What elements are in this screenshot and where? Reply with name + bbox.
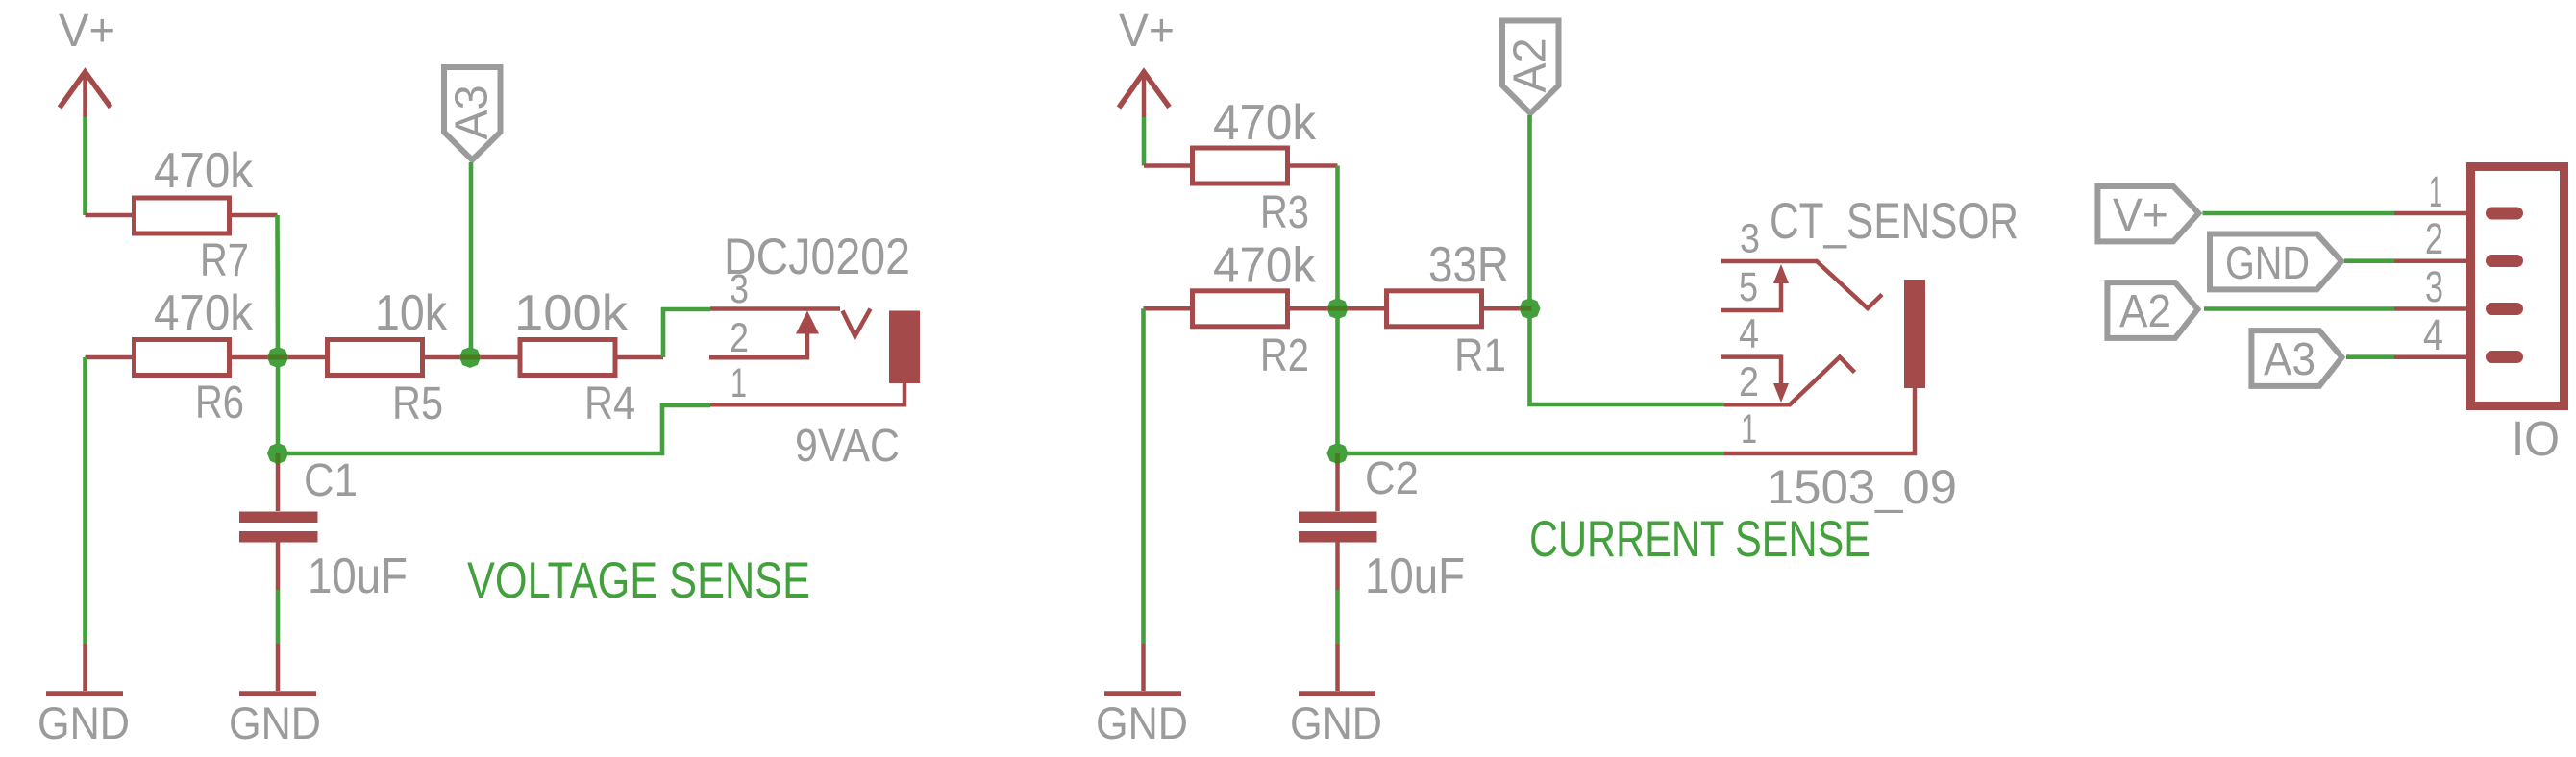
svg-text:1503_09: 1503_09 <box>1767 460 1957 514</box>
flag A2 (IO pin 3) <box>2107 282 2197 338</box>
wire V+ to R3 <box>1142 117 1147 166</box>
svg-text:R2: R2 <box>1260 330 1309 381</box>
ground symbol GND (under R2) <box>1096 644 1188 748</box>
flag A2 (top, pointing down) <box>1502 21 1559 114</box>
svg-text:2: 2 <box>1739 359 1759 405</box>
IO pin 2 contact <box>2486 255 2523 267</box>
svg-text:2: 2 <box>730 315 749 361</box>
wire node F to CT_SENSOR pin 1 <box>1338 452 1725 456</box>
wire GND flag to IO pin 2 <box>2344 258 2394 263</box>
svg-text:10k: 10k <box>375 285 448 341</box>
svg-text:4: 4 <box>2423 310 2443 359</box>
svg-text:R3: R3 <box>1260 187 1309 238</box>
svg-text:A2: A2 <box>1505 38 1556 93</box>
value label 470k (R2) <box>1213 238 1317 294</box>
pin number 3 (CT_SENSOR) <box>1740 216 1760 262</box>
wire node C to jack pin 1 <box>278 405 710 453</box>
name label R6 <box>195 378 244 428</box>
svg-text:GND: GND <box>1290 697 1382 748</box>
svg-text:9VAC: 9VAC <box>795 421 900 472</box>
net label 9VAC <box>795 421 900 472</box>
svg-text:A2: A2 <box>2119 286 2171 337</box>
resistor R1 <box>1338 291 1530 327</box>
node C junction (C1 tap) <box>267 443 288 464</box>
svg-text:5: 5 <box>1739 264 1758 310</box>
name label R1 <box>1454 330 1506 381</box>
IO pin 1 line <box>2394 211 2470 216</box>
part label DCJ0202 <box>724 229 910 285</box>
CT_SENSOR pin 1 <box>1724 388 1915 453</box>
svg-text:C1: C1 <box>304 455 358 506</box>
wire R6 to GND <box>83 357 87 644</box>
DCJ0202 pin 1 <box>710 383 904 404</box>
node D junction (R2/R3/R1/C2) <box>1327 298 1349 319</box>
svg-text:V+: V+ <box>2113 190 2168 241</box>
name label IO <box>2512 411 2560 466</box>
svg-text:2: 2 <box>2425 214 2443 263</box>
ground symbol GND (under C1) <box>229 644 321 748</box>
CT_SENSOR pin 4 <box>1721 357 1781 386</box>
resistor R2 <box>1144 291 1338 327</box>
resistor R5 <box>278 340 470 376</box>
capacitor C2 <box>1299 453 1377 590</box>
value label 10uF (C2) <box>1365 549 1465 604</box>
svg-text:R4: R4 <box>584 378 635 429</box>
ground symbol GND (left of C1) <box>37 644 130 748</box>
CT_SENSOR pin 5 <box>1721 281 1781 310</box>
part label 1503_09 <box>1767 460 1957 514</box>
supply symbol V+ arrow (right) <box>1119 71 1170 117</box>
pin number 4 (IO) <box>2423 310 2443 359</box>
svg-text:GND: GND <box>2225 238 2310 289</box>
resistor R6 <box>86 340 279 376</box>
svg-text:1: 1 <box>1741 406 1757 452</box>
wire R2 to GND <box>1141 308 1146 644</box>
capacitor C1 <box>239 453 318 590</box>
resistor R4 <box>470 340 663 376</box>
flag A3 (top, pointing down) <box>444 67 501 160</box>
value label 470k (R6) <box>154 285 254 341</box>
name label R7 <box>200 235 249 286</box>
wire V+ to R7 <box>83 117 87 215</box>
svg-text:R6: R6 <box>195 378 244 428</box>
flag V+ (IO pin 1) <box>2097 186 2198 241</box>
DCJ0202 pin 2 <box>709 333 807 357</box>
wire node A to node C <box>276 357 281 453</box>
section title CURRENT SENSE <box>1529 511 1870 568</box>
svg-text:DCJ0202: DCJ0202 <box>724 229 910 285</box>
value label 10k (R5) <box>375 285 448 341</box>
svg-text:3: 3 <box>2425 262 2443 311</box>
svg-text:470k: 470k <box>1213 95 1317 151</box>
node F junction (C2 tap) <box>1327 443 1349 464</box>
section title VOLTAGE SENSE <box>467 552 810 609</box>
svg-text:A3: A3 <box>2264 334 2316 385</box>
wire A2 flag to IO pin 3 <box>2204 306 2394 311</box>
svg-text:GND: GND <box>229 697 321 748</box>
pin number 5 (CT_SENSOR) <box>1739 264 1758 310</box>
pin number 3 (DCJ0202) <box>730 266 749 312</box>
wire A3 to node B <box>469 162 474 357</box>
DCJ0202 pin 3 <box>710 306 840 311</box>
resistor R3 <box>1144 148 1338 183</box>
wire R7 to node A <box>275 215 280 357</box>
IO pin 4 contact <box>2486 351 2523 363</box>
pin number 2 (DCJ0202) <box>730 315 749 361</box>
svg-text:R7: R7 <box>200 235 249 286</box>
node B junction (R5/R4/A3) <box>459 347 481 368</box>
pin number 1 (DCJ0202) <box>731 360 747 406</box>
pin number 4 (CT_SENSOR) <box>1739 311 1759 357</box>
value label 470k (R3) <box>1213 95 1317 151</box>
node E junction (R1/A2/CT pin2) <box>1520 298 1541 319</box>
connector IO (4-pin header) <box>2394 167 2564 406</box>
part label CT_SENSOR <box>1770 193 2019 250</box>
CT_SENSOR pin 2 <box>1724 357 1855 405</box>
wire V+ flag to IO pin 1 <box>2203 211 2395 216</box>
name label R2 <box>1260 330 1309 381</box>
svg-text:10uF: 10uF <box>1365 549 1465 604</box>
supply symbol V+ label (left) <box>59 6 115 57</box>
CT_SENSOR pin 3 <box>1721 261 1882 308</box>
ground symbol GND (under C2) <box>1290 644 1382 748</box>
wire node E to CT_SENSOR pin 2 <box>1530 308 1725 404</box>
wire A3 flag to IO pin 4 <box>2346 354 2394 359</box>
wire C1 to GND <box>276 590 281 644</box>
svg-text:33R: 33R <box>1428 237 1509 293</box>
svg-text:1: 1 <box>731 360 747 406</box>
svg-text:470k: 470k <box>1213 238 1317 294</box>
value label 33R (R1) <box>1428 237 1509 293</box>
flag A3 (IO pin 4) <box>2251 330 2341 386</box>
svg-text:100k: 100k <box>514 285 629 341</box>
pin number 1 (IO) <box>2429 167 2442 216</box>
pin number 3 (IO) <box>2425 262 2443 311</box>
pin number 2 (CT_SENSOR) <box>1739 359 1759 405</box>
wire C2 to GND <box>1335 590 1340 644</box>
value label 10uF (C1) <box>308 549 408 604</box>
name label R4 <box>584 378 635 429</box>
IO pin 2 line <box>2394 258 2470 263</box>
pin number 2 (IO) <box>2425 214 2443 263</box>
supply symbol V+ arrow (left) <box>60 71 111 117</box>
svg-text:CT_SENSOR: CT_SENSOR <box>1770 193 2019 250</box>
wire node D to node F <box>1335 308 1340 453</box>
resistor R7 <box>86 198 278 233</box>
supply symbol V+ label (right) <box>1119 6 1175 57</box>
name label R3 <box>1260 187 1309 238</box>
svg-text:CURRENT SENSE: CURRENT SENSE <box>1529 511 1870 568</box>
IO pin 3 contact <box>2486 303 2523 315</box>
svg-text:V+: V+ <box>59 6 115 57</box>
IO box outline <box>2471 167 2564 406</box>
IO pin 4 line <box>2394 354 2470 359</box>
value label 470k (R7) <box>154 143 254 199</box>
svg-text:4: 4 <box>1739 311 1759 357</box>
svg-text:470k: 470k <box>154 285 254 341</box>
CT_SENSOR sleeve bar <box>1904 280 1925 388</box>
svg-text:IO: IO <box>2512 411 2560 466</box>
svg-text:R5: R5 <box>392 378 443 429</box>
wire R3 to node D <box>1335 166 1340 309</box>
IO pin 3 line <box>2394 306 2470 311</box>
IO pin 1 contact <box>2486 208 2523 220</box>
svg-text:GND: GND <box>1096 697 1188 748</box>
pin number 1 (CT_SENSOR) <box>1741 406 1757 452</box>
svg-text:C2: C2 <box>1365 453 1419 504</box>
value label 100k (R4) <box>514 285 629 341</box>
svg-text:R1: R1 <box>1454 330 1506 381</box>
wire R4 to jack pin 3 <box>663 309 710 357</box>
name label R5 <box>392 378 443 429</box>
svg-text:3: 3 <box>1740 216 1760 262</box>
svg-text:1: 1 <box>2429 167 2442 216</box>
svg-text:GND: GND <box>37 697 130 748</box>
connector DCJ0202 (9VAC barrel jack) <box>709 309 920 405</box>
wire A2 to node E <box>1527 115 1532 308</box>
svg-text:470k: 470k <box>154 143 254 199</box>
svg-text:VOLTAGE SENSE: VOLTAGE SENSE <box>467 552 810 609</box>
name label C1 <box>304 455 358 506</box>
connector CT_SENSOR (1503_09 jack) <box>1721 261 1925 453</box>
flag GND (IO pin 2) <box>2210 234 2341 290</box>
svg-text:10uF: 10uF <box>308 549 408 604</box>
node A junction (R6/R7/R5) <box>267 347 288 368</box>
name label C2 <box>1365 453 1419 504</box>
svg-text:V+: V+ <box>1119 6 1175 57</box>
DCJ0202 sleeve bar <box>889 311 920 384</box>
svg-text:A3: A3 <box>447 85 498 140</box>
